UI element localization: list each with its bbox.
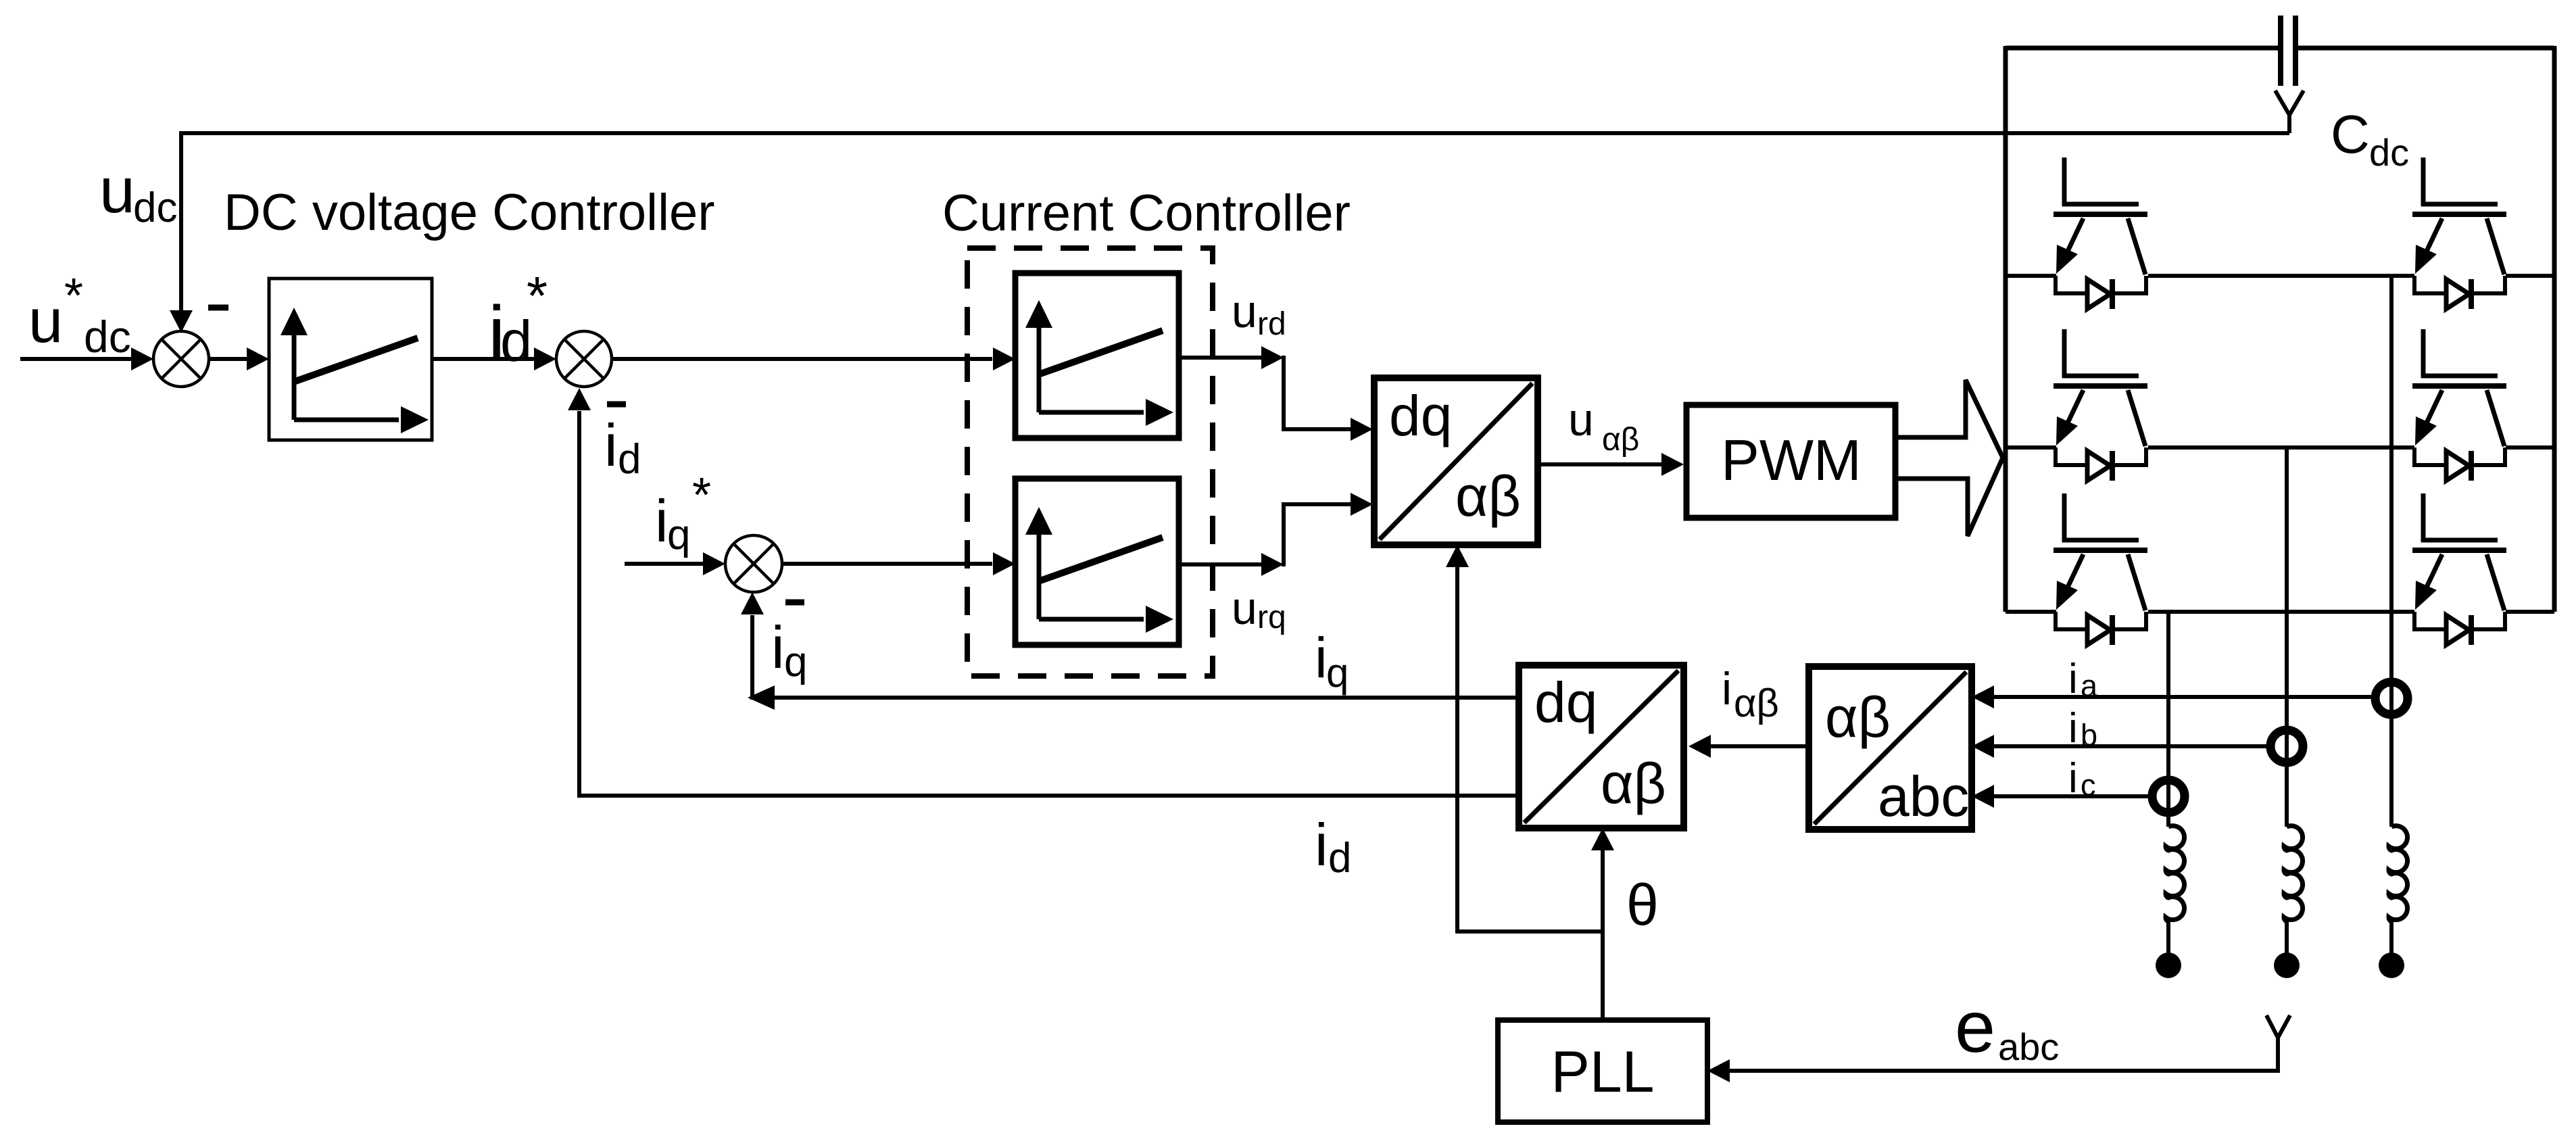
svg-text:*: * [692, 468, 711, 523]
transistor Q5 (IGBT with freewheeling diode) [2053, 493, 2147, 645]
current sensor ib [2270, 730, 2303, 763]
svg-text:dc: dc [84, 312, 131, 362]
label Current Controller [942, 185, 1351, 242]
svg-text:dq: dq [1534, 671, 1597, 734]
wire S3 to PI block U3 [782, 552, 1015, 575]
node u_alphabeta label [1568, 394, 1639, 458]
svg-text:i: i [2068, 705, 2078, 752]
svg-text:q: q [667, 512, 690, 558]
transistor Q1 (IGBT with freewheeling diode) [2053, 158, 2147, 309]
node theta label [1626, 873, 1659, 938]
wire urd (U2 to U4) [1179, 346, 1373, 441]
minus sign at S1 [208, 305, 228, 311]
node ic label [2068, 755, 2096, 802]
svg-text:d: d [618, 436, 641, 483]
wire phase A row [2006, 274, 2554, 278]
wire phase C output [2166, 612, 2170, 827]
PLL block U8 [1498, 1020, 1707, 1122]
svg-text:i: i [1722, 663, 1732, 715]
wire i_alphabeta (U7 to U5) [1688, 735, 1809, 758]
summing junction S2 (id error) [556, 331, 612, 387]
svg-text:q: q [1326, 650, 1348, 696]
node ib label [2068, 705, 2097, 752]
grid terminal A [2379, 952, 2404, 978]
node iq mid label (on feedback wire) [1315, 626, 1348, 696]
node iq feedback label (at S3) [771, 614, 807, 685]
node Cdc voltage tap (Y) [2275, 91, 2304, 133]
wire ic sense [1972, 785, 2149, 808]
inductor Lc [2166, 826, 2185, 953]
svg-text:dq: dq [1389, 384, 1452, 447]
node u*dc input label [28, 269, 131, 362]
svg-text:q: q [784, 639, 807, 685]
node ia label [2068, 656, 2098, 703]
node id bottom label [1315, 811, 1351, 881]
wire id feedback (from dq/ab block U5 to S2) [568, 388, 1519, 798]
wire udc feedback (from Cdc tap to S1) [170, 131, 2289, 333]
summing junction S1 (udc error) [153, 331, 209, 387]
svg-text:b: b [2081, 718, 2097, 752]
transistor Q2 (IGBT with freewheeling diode) [2412, 158, 2506, 309]
PWM output block arrow to converter [1895, 380, 2003, 536]
svg-text:d: d [1328, 835, 1351, 881]
wire e_abc (grid tap to PLL) [1707, 1036, 2278, 1082]
wire S1 to PI block U1 [209, 347, 269, 370]
transform block U5 (dq to alpha-beta measurement) [1519, 665, 1684, 828]
current controller dashed box [967, 248, 1213, 676]
svg-text:PLL: PLL [1551, 1040, 1654, 1105]
wire theta (PLL to U5 and U4) [1446, 545, 1614, 1020]
svg-text:C: C [2331, 104, 2370, 164]
transform block U7 (alpha-beta to abc) [1809, 667, 1972, 829]
transistor Q3 (IGBT with freewheeling diode) [2053, 329, 2147, 481]
svg-text:a: a [2081, 669, 2098, 703]
wire urq (U3 to U4) [1179, 493, 1373, 576]
capacitor Cdc [2281, 16, 2295, 86]
minus sign at S3 [785, 600, 804, 606]
wire ib sense [1972, 735, 2268, 758]
svg-text:i: i [655, 487, 669, 554]
svg-text:u: u [1232, 583, 1257, 634]
svg-text:i: i [771, 614, 785, 681]
node e_abc label [1955, 986, 2059, 1068]
svg-text:i: i [2068, 755, 2078, 802]
svg-text:u: u [99, 155, 135, 226]
wire u_alphabeta (U4 to PWM) [1538, 453, 1684, 476]
op-amp U3 (q-axis current PI controller) [1015, 479, 1179, 645]
inductor La [2389, 826, 2408, 953]
wire phase B row [2006, 445, 2554, 450]
wire u*dc input [20, 347, 153, 370]
transistor Q6 (IGBT with freewheeling diode) [2412, 493, 2506, 645]
svg-text:u: u [1568, 394, 1594, 445]
svg-text:αβ: αβ [1455, 464, 1521, 528]
minus sign at S2 [607, 402, 626, 408]
svg-text:*: * [527, 266, 548, 326]
transform block U4 (dq to alpha-beta) [1374, 378, 1538, 545]
wire iq* input [625, 552, 725, 575]
label DC voltage Controller [224, 184, 715, 241]
node iq* input label [655, 468, 711, 558]
svg-text:αβ: αβ [1601, 752, 1666, 815]
svg-text:Current Controller: Current Controller [942, 185, 1351, 242]
svg-text:rd: rd [1257, 306, 1286, 342]
node udc label [99, 155, 177, 231]
wire S2 to PI block U2 [612, 347, 1015, 370]
svg-text:dc: dc [133, 185, 177, 231]
svg-text:i: i [604, 412, 618, 479]
wire U1 output id* to S2 [432, 347, 556, 370]
wire ia sense [1972, 685, 2373, 708]
node i_alphabeta label [1722, 663, 1779, 725]
PWM block U6 [1686, 405, 1895, 518]
node id feedback label (at S2) [604, 412, 641, 483]
svg-text:u: u [28, 287, 63, 356]
current sensor ia [2375, 682, 2408, 715]
svg-text:i: i [1315, 626, 1328, 690]
wire iq feedback (from dq/ab block U5 to S3) [741, 592, 1519, 710]
node grid voltage tap (Y) [2266, 1015, 2290, 1038]
svg-text:c: c [2081, 768, 2096, 802]
svg-text:abc: abc [1878, 765, 1969, 828]
svg-text:u: u [1232, 286, 1257, 337]
svg-text:dc: dc [2369, 131, 2409, 174]
right DC bus vertical [2552, 46, 2557, 612]
svg-text:*: * [64, 269, 83, 323]
svg-text:αβ: αβ [1734, 681, 1779, 725]
DC bus top rail [2006, 46, 2554, 51]
grid terminal B [2274, 952, 2300, 978]
node Cdc label [2331, 104, 2409, 174]
op-amp U1 (DC voltage PI controller block) [269, 279, 432, 440]
node urd label [1232, 286, 1286, 342]
svg-text:abc: abc [1998, 1025, 2059, 1068]
svg-text:θ: θ [1626, 873, 1659, 938]
svg-text:DC voltage Controller: DC voltage Controller [224, 184, 715, 241]
node urq label [1232, 583, 1286, 635]
wire phase A output [2389, 276, 2393, 827]
svg-text:i: i [2068, 656, 2078, 702]
svg-text:αβ: αβ [1825, 685, 1891, 749]
svg-text:e: e [1955, 986, 1995, 1067]
svg-text:αβ: αβ [1602, 422, 1639, 458]
grid terminal C [2156, 952, 2181, 978]
current sensor ic [2152, 780, 2185, 813]
op-amp U2 (d-axis current PI controller) [1015, 273, 1179, 438]
wire phase B output [2285, 447, 2289, 827]
svg-text:i: i [1315, 811, 1328, 878]
transistor Q4 (IGBT with freewheeling diode) [2412, 329, 2506, 481]
wire phase C row [2006, 610, 2554, 614]
svg-text:rq: rq [1257, 600, 1286, 635]
node id* label [488, 266, 548, 377]
inductor Lb [2284, 826, 2303, 953]
summing junction S3 (iq error) [725, 535, 782, 592]
left DC bus vertical [2003, 46, 2008, 612]
svg-text:PWM: PWM [1721, 429, 1862, 493]
